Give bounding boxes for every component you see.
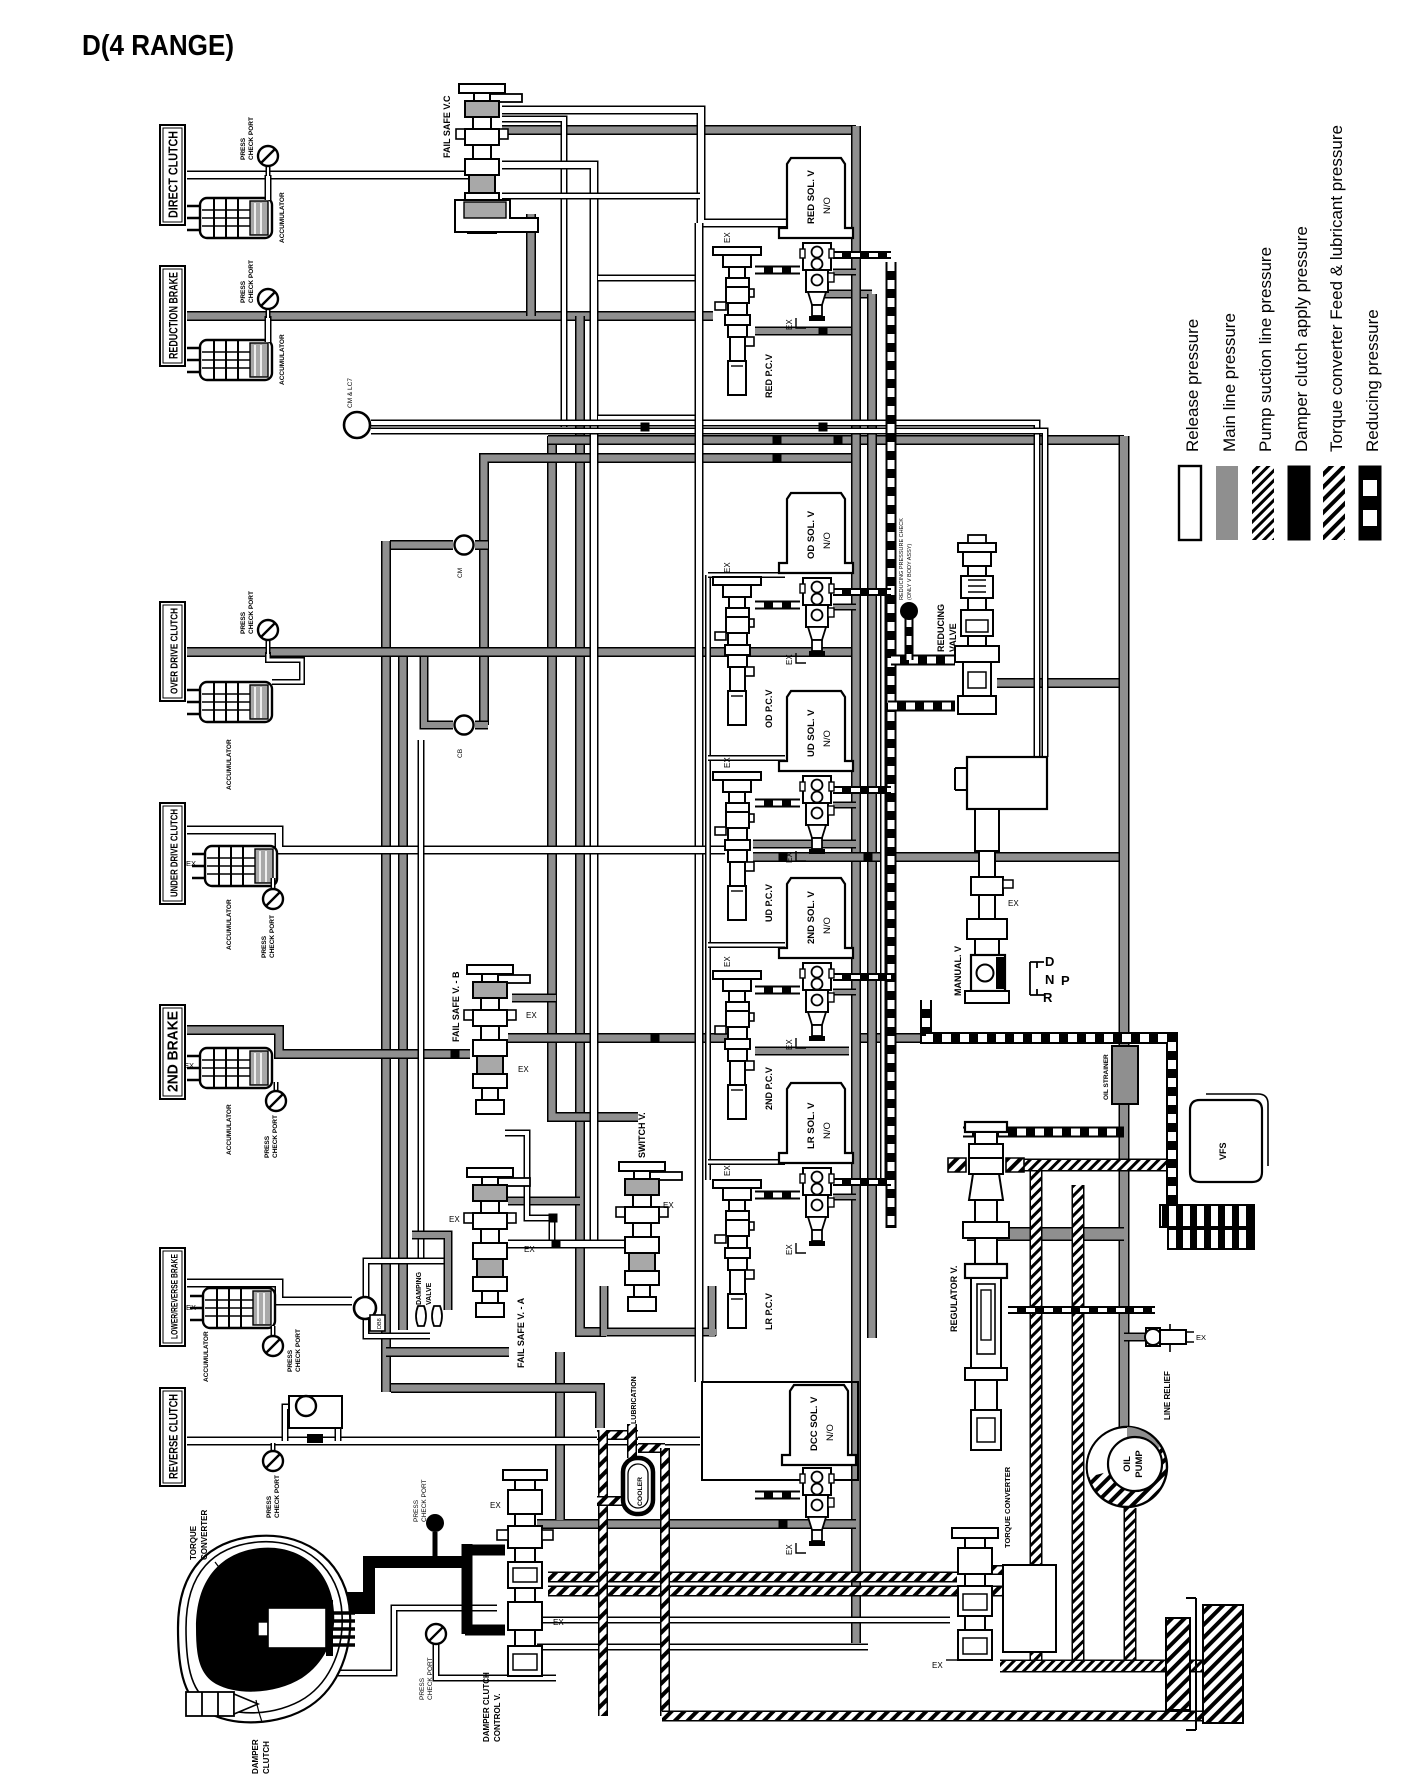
wire CM circle line xyxy=(390,540,453,550)
svg-text:CONTROL V.: CONTROL V. xyxy=(493,1694,502,1742)
svg-text:(ONLY V BODY ASSY): (ONLY V BODY ASSY) xyxy=(907,544,913,600)
svg-text:REDUCING PRESSURE CHECK: REDUCING PRESSURE CHECK xyxy=(899,518,905,600)
svg-text:ACCUMULATOR: ACCUMULATOR xyxy=(226,739,233,790)
press check port reverse clutch xyxy=(271,1443,276,1451)
accumulator reduction brake xyxy=(187,340,272,380)
svg-text:TORQUE CONVERTER: TORQUE CONVERTER xyxy=(1003,1466,1012,1548)
svg-text:RED SOL. V: RED SOL. V xyxy=(806,169,817,224)
wire fail safe A to switch valve xyxy=(508,1240,632,1249)
valve regulator xyxy=(965,1122,1007,1132)
svg-text:CM: CM xyxy=(457,568,464,578)
svg-text:CHECK PORT: CHECK PORT xyxy=(295,1329,302,1372)
svg-text:OVER DRIVE CLUTCH: OVER DRIVE CLUTCH xyxy=(169,608,181,694)
wire fail safe B bottom elbow xyxy=(505,1133,552,1244)
svg-text:LR SOL. V: LR SOL. V xyxy=(806,1102,817,1149)
node pump suction box xyxy=(1003,1565,1056,1652)
svg-text:OD SOL. V: OD SOL. V xyxy=(806,510,817,559)
wire suction bottom run xyxy=(1000,1660,1203,1673)
svg-text:D(4 RANGE): D(4 RANGE) xyxy=(82,30,234,62)
svg-text:PRESS: PRESS xyxy=(240,611,247,634)
wire damping valve white loop xyxy=(366,1261,448,1297)
node 2ND BRAKE label xyxy=(160,1005,185,1099)
node VFS solenoid stripes xyxy=(1160,1205,1254,1227)
svg-text:EX: EX xyxy=(524,1245,535,1254)
svg-text:ACCUMULATOR: ACCUMULATOR xyxy=(203,1331,210,1382)
wire DCC gray feed xyxy=(537,1352,856,1524)
svg-text:EX: EX xyxy=(785,319,794,330)
wire main line y440 distribution xyxy=(552,436,638,1117)
wire cooler loop xyxy=(597,1430,638,1440)
svg-text:FAIL SAFE V. - A: FAIL SAFE V. - A xyxy=(516,1297,526,1368)
svg-text:DB8: DB8 xyxy=(377,1318,383,1329)
svg-text:EX: EX xyxy=(186,1303,196,1312)
wire fail safe VC bottom drop xyxy=(526,214,536,316)
svg-text:P: P xyxy=(1061,973,1070,988)
svg-text:EX: EX xyxy=(932,1661,943,1670)
valve manual xyxy=(967,757,1047,809)
node tc black connect xyxy=(320,1592,375,1614)
svg-text:PRESS: PRESS xyxy=(240,280,247,303)
svg-text:DAMPER: DAMPER xyxy=(251,1739,260,1774)
wire low-reverse brake line xyxy=(187,1283,352,1301)
wire vertical white x699 xyxy=(695,223,704,1382)
svg-text:REGULATOR V.: REGULATOR V. xyxy=(949,1266,959,1332)
svg-text:UD SOL. V: UD SOL. V xyxy=(806,709,817,757)
wire cluster vertical x872 xyxy=(867,294,877,1338)
wire solenoid checker stubs to vertical xyxy=(833,251,891,259)
wire fail safe VC white outputs xyxy=(502,110,806,223)
wire regulator checker arm xyxy=(963,1127,1124,1138)
valve fail safe B xyxy=(464,965,530,1114)
wire CM-LC7 line xyxy=(371,423,1037,757)
solenoid RED SOL V xyxy=(779,158,853,238)
svg-text:RED P.C.V: RED P.C.V xyxy=(764,354,774,398)
node oil strainer xyxy=(1112,1046,1138,1104)
svg-text:OIL: OIL xyxy=(1122,1456,1133,1472)
svg-text:CHECK PORT: CHECK PORT xyxy=(421,1479,428,1522)
svg-text:FAIL SAFE V.C: FAIL SAFE V.C xyxy=(442,95,452,158)
svg-text:EX: EX xyxy=(186,859,196,868)
node RNDP selector xyxy=(1030,962,1044,995)
solenoid UD SOL V xyxy=(779,691,853,771)
node REVERSE CLUTCH label xyxy=(160,1388,185,1486)
wire cluster vertical x856 xyxy=(851,126,861,1643)
wire suction vertical 1 xyxy=(1030,1160,1043,1660)
svg-text:EX: EX xyxy=(663,1201,674,1210)
svg-text:EX: EX xyxy=(723,562,732,573)
solenoid LR SOL V xyxy=(779,1083,853,1163)
svg-text:REDUCTION BRAKE: REDUCTION BRAKE xyxy=(169,272,181,359)
svg-text:MANUAL. V: MANUAL. V xyxy=(953,946,963,996)
accumulator overdrive clutch xyxy=(187,682,272,722)
node OVER DRIVE CLUTCH label xyxy=(160,602,185,701)
wire direct clutch line xyxy=(187,171,478,180)
svg-text:CHECK PORT: CHECK PORT xyxy=(274,1475,281,1518)
wire overdrive clutch line xyxy=(187,647,856,657)
svg-text:EX: EX xyxy=(785,1039,794,1050)
svg-text:EX: EX xyxy=(723,956,732,967)
svg-text:EX: EX xyxy=(723,757,732,768)
svg-text:N/O: N/O xyxy=(822,197,833,214)
solenoid OD SOL V xyxy=(779,493,853,573)
svg-text:EX: EX xyxy=(490,1501,501,1510)
black press check stem xyxy=(433,1532,438,1559)
wire regulator suction arm xyxy=(1008,1159,1172,1172)
svg-text:EX: EX xyxy=(785,654,794,665)
node oil pump xyxy=(1087,1427,1167,1507)
svg-text:PRESS: PRESS xyxy=(240,137,247,160)
svg-text:CM & LC7: CM & LC7 xyxy=(347,378,354,408)
svg-text:CB: CB xyxy=(457,749,464,758)
svg-text:EX: EX xyxy=(723,232,732,243)
svg-text:PRESS: PRESS xyxy=(261,935,268,958)
valve reducing xyxy=(958,543,996,552)
pcv RED xyxy=(713,247,761,395)
svg-text:COOLER: COOLER xyxy=(637,1477,644,1506)
svg-text:VFS: VFS xyxy=(1218,1142,1228,1160)
solenoid DCC SOL V xyxy=(782,1385,856,1465)
wire fail safe A gray output xyxy=(508,1197,580,1206)
svg-text:N/O: N/O xyxy=(822,532,833,549)
svg-text:EX: EX xyxy=(1196,1333,1206,1342)
accumulator underdrive clutch xyxy=(192,846,277,886)
svg-text:LR P.C.V: LR P.C.V xyxy=(764,1293,774,1330)
wire torque converter white returns xyxy=(324,1608,497,1673)
wire underdrive clutch line xyxy=(187,830,725,850)
node junctions xyxy=(773,436,782,445)
svg-text:2ND SOL. V: 2ND SOL. V xyxy=(806,891,817,944)
svg-text:EX: EX xyxy=(526,1011,537,1020)
wire manual valve checker to VFS xyxy=(926,1000,1172,1205)
svg-text:FAIL SAFE V. - B: FAIL SAFE V. - B xyxy=(451,971,461,1042)
wire CB circle line xyxy=(424,652,453,725)
svg-text:Main line pressure: Main line pressure xyxy=(1220,313,1239,452)
wire suction vertical 2 xyxy=(1072,1185,1085,1660)
wire enclosure second vertical xyxy=(705,575,711,1180)
wire fail safe VC gray output xyxy=(502,125,856,135)
svg-text:CHECK PORT: CHECK PORT xyxy=(248,117,255,160)
svg-text:ACCUMULATOR: ACCUMULATOR xyxy=(226,1104,233,1155)
accumulator low-reverse xyxy=(190,1288,275,1328)
svg-text:REDUCING: REDUCING xyxy=(936,604,946,652)
svg-text:D: D xyxy=(1045,954,1054,969)
svg-text:EX: EX xyxy=(184,1061,194,1070)
valve damping xyxy=(412,1235,448,1310)
wire reducing valve gray output xyxy=(997,678,1124,688)
svg-text:OIL STRAINER: OIL STRAINER xyxy=(1103,1054,1110,1100)
wire reduction brake main line xyxy=(187,311,713,321)
wire cooler to strainer run xyxy=(662,1711,1205,1722)
svg-text:UNDER DRIVE CLUTCH: UNDER DRIVE CLUTCH xyxy=(170,809,181,897)
valve damper clutch control xyxy=(503,1470,547,1480)
node reducing press check (black) xyxy=(900,602,918,620)
wire white vertical x421 xyxy=(418,740,425,1261)
svg-text:ACCUMULATOR: ACCUMULATOR xyxy=(226,899,233,950)
svg-text:CHECK PORT: CHECK PORT xyxy=(269,915,276,958)
svg-text:CHECK PORT: CHECK PORT xyxy=(248,591,255,634)
svg-text:PRESS: PRESS xyxy=(287,1349,294,1372)
wire regulator wide gray band xyxy=(967,1227,1124,1241)
svg-text:DIRECT CLUTCH: DIRECT CLUTCH xyxy=(167,131,181,218)
press check port overdrive xyxy=(266,640,271,654)
svg-text:N/O: N/O xyxy=(825,1424,836,1441)
wire line relief stub xyxy=(1124,1333,1146,1342)
wire left vertical x403 xyxy=(398,648,408,1330)
press check port 2nd brake xyxy=(274,1082,279,1091)
svg-text:REVERSE CLUTCH: REVERSE CLUTCH xyxy=(169,1394,181,1479)
wire red sol to cluster xyxy=(823,290,872,299)
node CM circle xyxy=(455,536,474,555)
wire reducing press check stem xyxy=(905,618,914,660)
svg-text:EX: EX xyxy=(1008,899,1019,908)
svg-text:Release pressure: Release pressure xyxy=(1183,319,1202,452)
svg-text:DCC SOL. V: DCC SOL. V xyxy=(809,1396,820,1451)
legend xyxy=(1179,466,1201,540)
svg-text:PRESS: PRESS xyxy=(419,1677,426,1700)
wire damper clutch apply black xyxy=(369,1562,465,1612)
svg-text:EX: EX xyxy=(723,1165,732,1176)
valve fail safe VC xyxy=(456,84,522,233)
svg-text:2ND P.C.V: 2ND P.C.V xyxy=(764,1067,774,1110)
valve line relief xyxy=(1146,1328,1160,1346)
pcv OD xyxy=(713,577,761,725)
node LOWER-REVERSE BRAKE label xyxy=(160,1248,185,1346)
svg-text:Pump suction line pressure: Pump suction line pressure xyxy=(1256,247,1275,452)
press check port direct clutch xyxy=(266,166,271,176)
svg-text:VALVE: VALVE xyxy=(948,623,958,652)
svg-text:N: N xyxy=(1045,972,1054,987)
svg-text:CHECK PORT: CHECK PORT xyxy=(248,260,255,303)
svg-text:DAMPING: DAMPING xyxy=(416,1271,423,1305)
wire 2nd brake line xyxy=(187,1030,470,1054)
node CB circle xyxy=(455,716,474,735)
wire reducing vertical xyxy=(886,262,897,1228)
node REDUCTION BRAKE label xyxy=(160,266,185,366)
node torque converter xyxy=(178,1536,350,1723)
wire reverse check valve loop xyxy=(285,1407,338,1441)
svg-text:Damper clutch apply pressure: Damper clutch apply pressure xyxy=(1292,226,1311,452)
wire main line vertical x580 xyxy=(580,316,606,1332)
wire left vertical x386 xyxy=(381,541,391,1392)
svg-text:EX: EX xyxy=(785,1544,794,1555)
svg-text:N/O: N/O xyxy=(822,1122,833,1139)
wire switch valve bottom frame xyxy=(604,1286,716,1336)
node UNDER DRIVE CLUTCH label xyxy=(160,803,185,904)
valve torque converter control xyxy=(952,1528,998,1538)
pcv LR xyxy=(713,1180,761,1328)
wire UD pcv outputs xyxy=(753,840,856,849)
node strainer blocks xyxy=(1203,1605,1243,1723)
wire main vertical to pump xyxy=(1119,436,1130,1430)
svg-text:N/O: N/O xyxy=(822,917,833,934)
svg-text:PUMP: PUMP xyxy=(1134,1450,1145,1478)
svg-text:2ND BRAKE: 2ND BRAKE xyxy=(166,1011,182,1092)
press check port bottom white xyxy=(426,1624,446,1644)
wire red pcv output xyxy=(755,327,856,336)
svg-text:DAMPER CLUTCH: DAMPER CLUTCH xyxy=(482,1672,491,1742)
node DIRECT CLUTCH label xyxy=(160,125,185,225)
wire enclosure group tops xyxy=(708,572,785,578)
valve fail safe A xyxy=(464,1168,530,1317)
valve switch xyxy=(616,1162,682,1311)
wire solenoid gray stubs xyxy=(833,269,856,276)
svg-text:CLUTCH: CLUTCH xyxy=(262,1741,271,1774)
node VFS xyxy=(1190,1100,1262,1182)
wire reducing valve bottom xyxy=(888,701,955,712)
svg-text:LINE RELIEF: LINE RELIEF xyxy=(1163,1371,1172,1420)
node cooler xyxy=(623,1458,653,1514)
svg-text:Reducing pressure: Reducing pressure xyxy=(1363,309,1382,452)
node low-reverse ball circle xyxy=(354,1297,376,1319)
wire pcv-solenoid checker stubs xyxy=(755,266,800,275)
svg-text:N/O: N/O xyxy=(822,730,833,747)
press check port reduction brake xyxy=(266,309,271,318)
wire pump outlet xyxy=(1124,1508,1137,1666)
pcv 2ND xyxy=(713,971,761,1119)
svg-text:TORQUE: TORQUE xyxy=(189,1525,198,1560)
svg-text:SWITCH V.: SWITCH V. xyxy=(637,1112,647,1158)
node reverse check ball xyxy=(289,1396,342,1428)
wire gray y458 xyxy=(484,458,856,725)
solenoid 2ND SOL V xyxy=(779,878,853,958)
wire regulator black dash line xyxy=(1008,1306,1155,1314)
wire lubrication line xyxy=(391,1388,600,1428)
svg-text:EX: EX xyxy=(785,1244,794,1255)
press check port tc (black) xyxy=(426,1514,444,1532)
svg-text:Torque converter Feed & lubric: Torque converter Feed & lubricant pressu… xyxy=(1327,125,1346,452)
svg-text:EX: EX xyxy=(785,852,794,863)
svg-text:ACCUMULATOR: ACCUMULATOR xyxy=(279,334,286,385)
accumulator 2nd brake xyxy=(187,1048,272,1088)
svg-text:LUBRICATION: LUBRICATION xyxy=(631,1376,638,1424)
wire reverse clutch line xyxy=(187,1437,700,1446)
svg-text:CHECK PORT: CHECK PORT xyxy=(272,1115,279,1158)
svg-text:EX: EX xyxy=(449,1215,460,1224)
svg-text:ACCUMULATOR: ACCUMULATOR xyxy=(279,192,286,243)
node CM-LC7 circle xyxy=(344,412,370,438)
svg-text:VALVE: VALVE xyxy=(426,1282,433,1305)
svg-text:OD P.C.V: OD P.C.V xyxy=(764,690,774,728)
wire cluster white x883 xyxy=(880,592,886,1180)
svg-text:LOWER/REVERSE BRAKE: LOWER/REVERSE BRAKE xyxy=(170,1254,180,1339)
svg-text:EX: EX xyxy=(518,1065,529,1074)
svg-text:PRESS: PRESS xyxy=(266,1495,273,1518)
svg-text:CHECK PORT: CHECK PORT xyxy=(427,1657,434,1700)
wire tc valve right stub xyxy=(988,1565,1032,1575)
svg-text:EX: EX xyxy=(553,1618,564,1627)
svg-text:R: R xyxy=(1043,990,1053,1005)
svg-text:PRESS: PRESS xyxy=(413,1499,420,1522)
wire reducing valve input xyxy=(891,655,955,666)
wire tc feed lower xyxy=(548,1586,1036,1597)
svg-text:CONVERTER: CONVERTER xyxy=(200,1510,209,1560)
press check port underdrive xyxy=(271,878,276,889)
svg-text:UD P.C.V: UD P.C.V xyxy=(764,884,774,922)
press check port low-reverse xyxy=(271,1326,276,1336)
wire tc feed upper xyxy=(548,1572,957,1583)
svg-text:PRESS: PRESS xyxy=(264,1135,271,1158)
node DCC enclosure xyxy=(702,1382,858,1480)
pcv UD xyxy=(713,772,761,920)
accumulator direct clutch xyxy=(187,198,272,238)
